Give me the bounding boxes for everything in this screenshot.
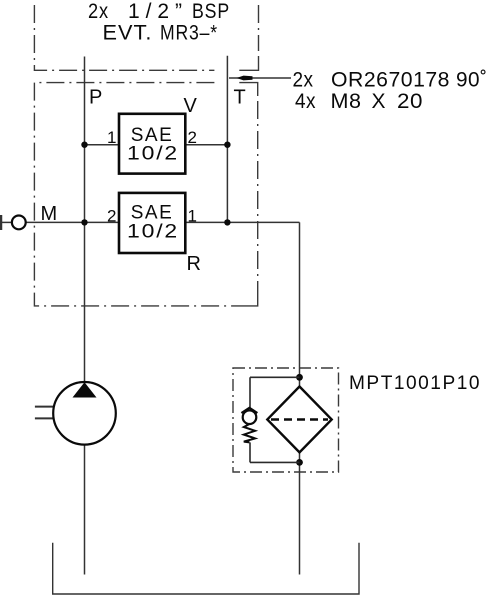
svg-text:2: 2 bbox=[188, 128, 197, 147]
svg-text:V: V bbox=[184, 95, 198, 117]
svg-text:1: 1 bbox=[107, 128, 116, 147]
svg-text:SAE: SAE bbox=[131, 202, 174, 223]
svg-text:2xOR267017890˚: 2xOR267017890˚ bbox=[293, 69, 488, 92]
svg-text:2x1/2”BSP: 2x1/2”BSP bbox=[88, 0, 230, 23]
svg-text:10/2: 10/2 bbox=[127, 222, 179, 243]
svg-text:2: 2 bbox=[107, 207, 116, 226]
svg-text:M: M bbox=[41, 203, 58, 225]
svg-text:P: P bbox=[89, 87, 102, 109]
svg-text:MPT1001P10: MPT1001P10 bbox=[349, 373, 481, 394]
svg-text:EVT.MR3–*: EVT.MR3–* bbox=[103, 22, 219, 45]
svg-text:10/2: 10/2 bbox=[127, 144, 179, 165]
svg-text:R: R bbox=[187, 253, 201, 275]
svg-text:4xM8X20: 4xM8X20 bbox=[295, 90, 423, 113]
svg-text:T: T bbox=[234, 87, 246, 109]
svg-text:1: 1 bbox=[188, 207, 197, 226]
